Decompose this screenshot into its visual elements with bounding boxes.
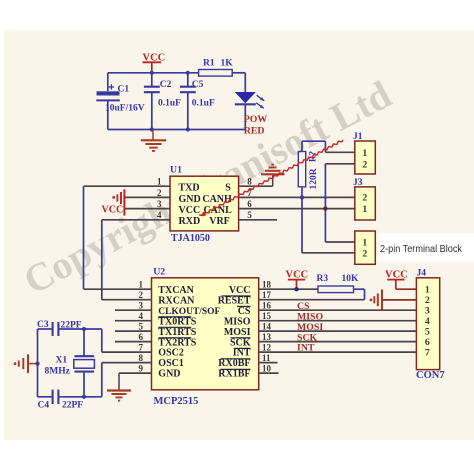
svg-text:1: 1 bbox=[362, 238, 367, 249]
svg-text:SCK: SCK bbox=[297, 332, 318, 343]
svg-text:C3: C3 bbox=[37, 320, 49, 330]
svg-text:MCP2515: MCP2515 bbox=[154, 396, 199, 407]
svg-text:C4: C4 bbox=[38, 401, 50, 411]
svg-text:7: 7 bbox=[425, 348, 430, 359]
svg-text:2: 2 bbox=[362, 160, 367, 171]
svg-text:5: 5 bbox=[425, 327, 430, 338]
svg-text:MOSI: MOSI bbox=[224, 327, 251, 338]
svg-text:J4: J4 bbox=[417, 268, 427, 278]
svg-text:TXD: TXD bbox=[179, 183, 200, 194]
svg-text:MISO: MISO bbox=[297, 311, 324, 322]
svg-text:8MHz: 8MHz bbox=[45, 367, 71, 377]
svg-text:R1: R1 bbox=[203, 59, 215, 69]
svg-text:3: 3 bbox=[139, 301, 144, 311]
svg-text:17: 17 bbox=[262, 290, 272, 300]
svg-text:11: 11 bbox=[262, 353, 271, 363]
svg-text:C1: C1 bbox=[118, 85, 130, 95]
svg-text:TX2RTS: TX2RTS bbox=[158, 337, 196, 348]
svg-text:RED: RED bbox=[244, 126, 265, 137]
svg-text:22PF: 22PF bbox=[62, 401, 83, 411]
svg-text:RX1BF: RX1BF bbox=[218, 369, 250, 380]
svg-text:10uF/16V: 10uF/16V bbox=[105, 103, 145, 113]
svg-text:0.1uF: 0.1uF bbox=[158, 98, 181, 108]
svg-text:2: 2 bbox=[139, 290, 144, 300]
svg-text:6: 6 bbox=[425, 337, 430, 348]
svg-text:SCK: SCK bbox=[230, 337, 251, 348]
svg-text:2: 2 bbox=[157, 188, 162, 198]
svg-text:X1: X1 bbox=[56, 356, 68, 366]
svg-text:4: 4 bbox=[157, 210, 162, 220]
svg-text:GND: GND bbox=[158, 369, 180, 380]
svg-text:TJA1050: TJA1050 bbox=[171, 233, 210, 244]
svg-text:RESET: RESET bbox=[218, 295, 251, 306]
svg-text:1: 1 bbox=[362, 204, 367, 215]
svg-text:6: 6 bbox=[139, 332, 144, 342]
svg-text:CANH: CANH bbox=[202, 194, 232, 205]
svg-text:5: 5 bbox=[247, 210, 252, 220]
svg-text:6: 6 bbox=[247, 199, 252, 209]
svg-text:12: 12 bbox=[262, 343, 272, 353]
svg-text:VCC: VCC bbox=[102, 205, 124, 216]
svg-text:10K: 10K bbox=[342, 274, 360, 284]
svg-text:9: 9 bbox=[139, 364, 144, 374]
svg-text:120R: 120R bbox=[309, 168, 319, 189]
svg-text:8: 8 bbox=[139, 353, 144, 363]
svg-text:RXCAN: RXCAN bbox=[158, 295, 195, 306]
svg-text:U1: U1 bbox=[170, 165, 182, 176]
svg-text:13: 13 bbox=[262, 332, 272, 342]
svg-text:1: 1 bbox=[139, 280, 144, 290]
svg-text:15: 15 bbox=[262, 311, 272, 321]
svg-text:MOSI: MOSI bbox=[297, 322, 323, 333]
svg-text:CS: CS bbox=[297, 301, 310, 312]
svg-text:CON7: CON7 bbox=[416, 370, 445, 381]
svg-text:16: 16 bbox=[262, 301, 272, 311]
svg-text:22PF: 22PF bbox=[61, 321, 82, 331]
svg-text:RXD: RXD bbox=[179, 216, 201, 227]
svg-text:VCC: VCC bbox=[179, 205, 201, 216]
svg-text:VCC: VCC bbox=[229, 285, 251, 296]
svg-text:U2: U2 bbox=[153, 267, 165, 278]
svg-text:OSC1: OSC1 bbox=[158, 358, 184, 369]
svg-text:INT: INT bbox=[297, 343, 315, 354]
svg-text:2-pin Terminal Block: 2-pin Terminal Block bbox=[380, 244, 463, 255]
svg-text:2: 2 bbox=[362, 193, 367, 204]
svg-text:1: 1 bbox=[425, 285, 430, 296]
svg-text:8: 8 bbox=[247, 177, 252, 187]
svg-text:10: 10 bbox=[262, 364, 272, 374]
svg-text:OSC2: OSC2 bbox=[158, 348, 184, 359]
svg-text:2: 2 bbox=[425, 295, 430, 306]
svg-text:18: 18 bbox=[262, 280, 272, 290]
svg-text:CLKOUT/SOF: CLKOUT/SOF bbox=[158, 306, 220, 316]
svg-text:3: 3 bbox=[157, 199, 162, 209]
svg-text:4: 4 bbox=[139, 311, 144, 321]
svg-text:1: 1 bbox=[362, 148, 367, 159]
svg-text:14: 14 bbox=[262, 322, 272, 332]
svg-text:1: 1 bbox=[157, 177, 162, 187]
svg-text:MISO: MISO bbox=[224, 316, 251, 327]
svg-text:R3: R3 bbox=[317, 274, 329, 284]
svg-text:TXCAN: TXCAN bbox=[158, 285, 194, 296]
svg-text:TX1RTS: TX1RTS bbox=[158, 327, 196, 338]
svg-text:INT: INT bbox=[233, 348, 251, 359]
svg-text:1K: 1K bbox=[221, 59, 234, 69]
svg-text:5: 5 bbox=[139, 322, 144, 332]
svg-text:7: 7 bbox=[139, 343, 144, 353]
svg-text:RX0BF: RX0BF bbox=[218, 358, 250, 369]
svg-text:CANL: CANL bbox=[203, 205, 232, 216]
svg-text:GND: GND bbox=[179, 194, 201, 205]
svg-text:3: 3 bbox=[425, 306, 430, 317]
svg-text:VRF: VRF bbox=[209, 216, 230, 227]
svg-text:S: S bbox=[225, 183, 231, 194]
svg-text:TX0RTS: TX0RTS bbox=[158, 316, 196, 327]
svg-text:C5: C5 bbox=[192, 80, 204, 90]
svg-text:C2: C2 bbox=[160, 80, 172, 90]
svg-text:0.1uF: 0.1uF bbox=[192, 98, 215, 108]
svg-text:POW: POW bbox=[244, 114, 268, 125]
svg-text:4: 4 bbox=[425, 316, 430, 327]
svg-text:CS: CS bbox=[238, 306, 251, 317]
svg-text:2: 2 bbox=[362, 248, 367, 259]
